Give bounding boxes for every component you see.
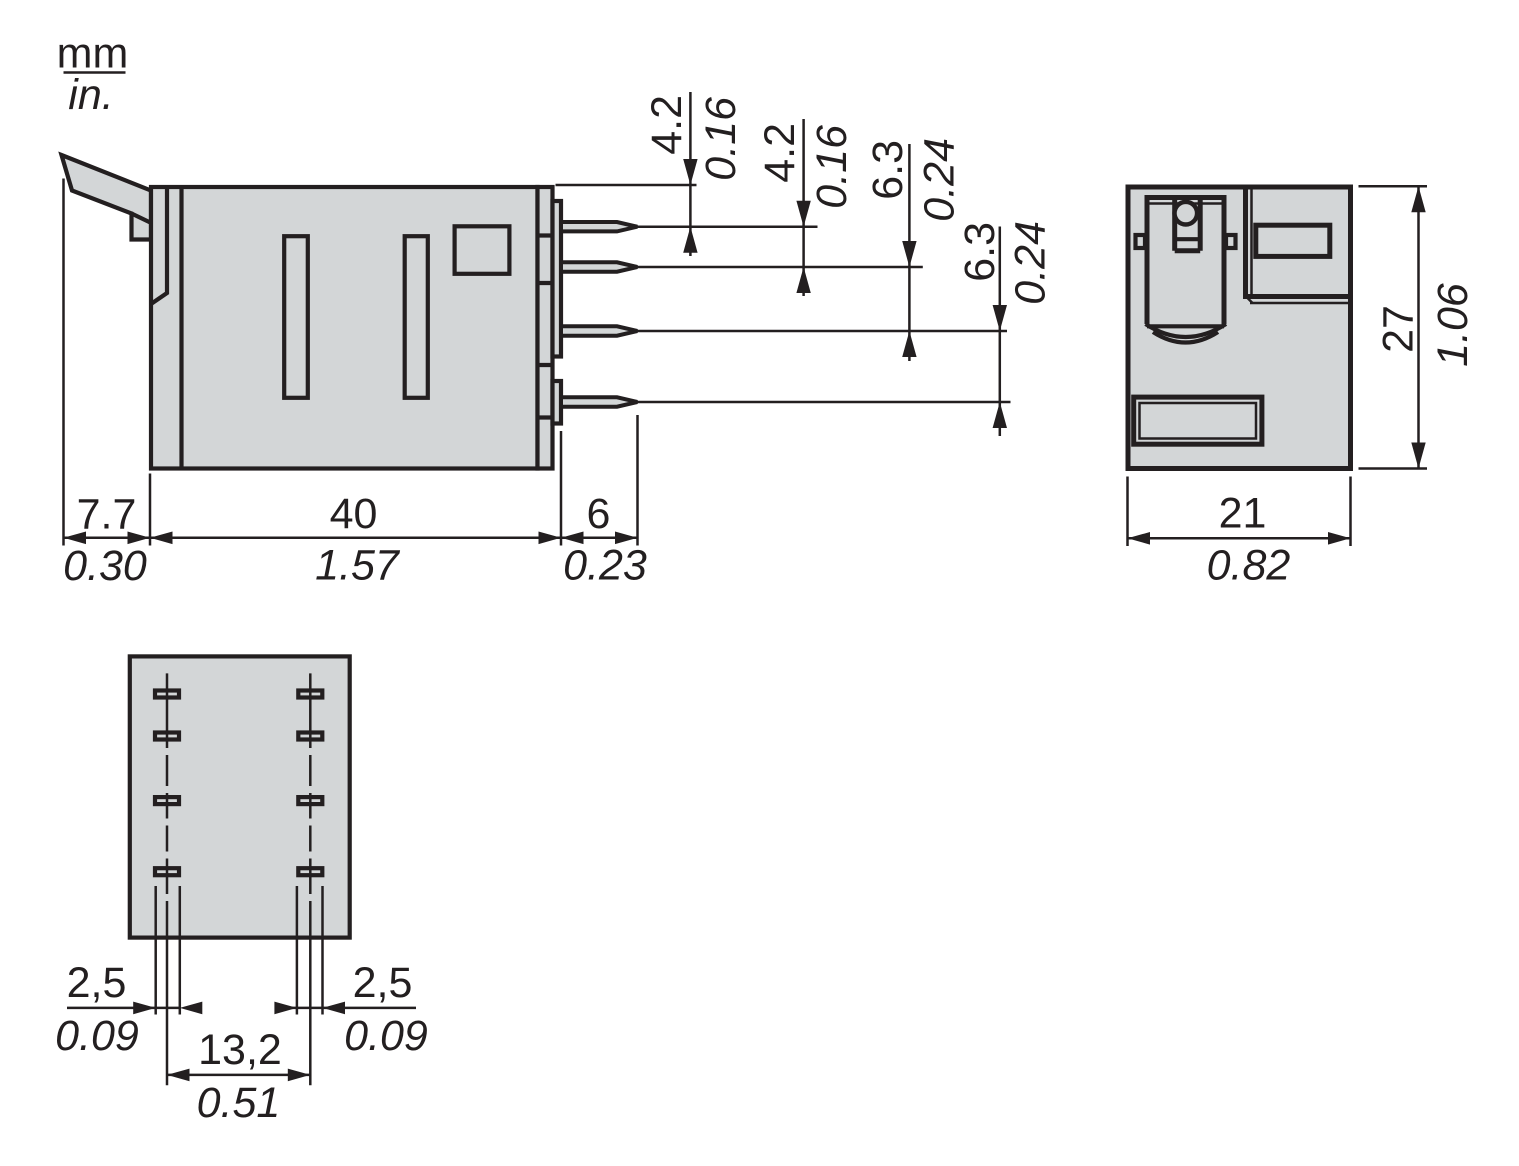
svg-text:1.57: 1.57 bbox=[315, 542, 401, 590]
svg-text:4.2: 4.2 bbox=[643, 95, 691, 155]
case left inner line bbox=[179, 187, 183, 469]
side view socket column bbox=[538, 187, 553, 469]
pin base block upper bbox=[553, 201, 562, 357]
svg-text:0.82: 0.82 bbox=[1207, 542, 1291, 590]
flag indicator housing bbox=[1145, 198, 1227, 343]
pin slot L2 bbox=[155, 733, 179, 740]
retaining clip lever bbox=[62, 155, 152, 240]
front view dimension 27/1.06 bbox=[1359, 186, 1478, 468]
bottom view: relay base bbox=[130, 656, 350, 1085]
case left flange line bbox=[152, 187, 167, 304]
svg-text:2,5: 2,5 bbox=[67, 959, 127, 1007]
pin slot R4 bbox=[298, 868, 322, 875]
svg-text:0.23: 0.23 bbox=[563, 542, 647, 590]
top-right block bottom edge bbox=[1243, 294, 1351, 299]
svg-text:21: 21 bbox=[1219, 490, 1267, 538]
svg-text:0.24: 0.24 bbox=[916, 138, 964, 222]
svg-text:0.16: 0.16 bbox=[697, 97, 745, 181]
dimension 6.3/0.24 second bbox=[956, 221, 1055, 436]
side view: relay body bbox=[62, 155, 638, 469]
svg-text:4.2: 4.2 bbox=[756, 123, 804, 183]
svg-text:7.7: 7.7 bbox=[77, 491, 137, 539]
pin slot R2 bbox=[298, 733, 322, 740]
top-right block miter bbox=[1245, 296, 1253, 304]
svg-text:6.3: 6.3 bbox=[956, 222, 1004, 282]
socket column notch 1 bbox=[536, 233, 553, 237]
front view dimension 21/0.82 bbox=[1128, 477, 1351, 590]
flag plunger bbox=[1175, 198, 1201, 251]
svg-text:0.09: 0.09 bbox=[55, 1012, 139, 1060]
front view: relay body bbox=[1128, 187, 1351, 469]
pin axis right (dashed) bbox=[309, 673, 312, 1085]
pin 3 bbox=[561, 326, 637, 335]
svg-text:0.16: 0.16 bbox=[808, 125, 856, 209]
extension line lever tip bbox=[62, 179, 65, 546]
dimension 4.2/0.16 first bbox=[643, 92, 745, 256]
case small square bbox=[455, 226, 510, 273]
svg-text:40: 40 bbox=[330, 490, 378, 538]
svg-text:0.24: 0.24 bbox=[1007, 221, 1055, 305]
pin slot R3 bbox=[298, 797, 322, 804]
pin axis left (dashed) bbox=[166, 673, 169, 1085]
case slot 2 bbox=[405, 236, 428, 398]
ref line case top bbox=[556, 184, 697, 187]
front view case bbox=[1128, 187, 1351, 469]
label window bbox=[1256, 225, 1330, 256]
pin 2 bbox=[561, 262, 637, 271]
socket column notch 4 bbox=[536, 415, 553, 419]
ref line pin 3 bbox=[638, 330, 1008, 333]
svg-text:0.30: 0.30 bbox=[63, 542, 147, 590]
bottom view dimension 2,5/0.09 right bbox=[274, 886, 428, 1060]
svg-text:2,5: 2,5 bbox=[353, 959, 413, 1007]
ref line pin 2 bbox=[638, 266, 923, 269]
top-right block left edge bbox=[1243, 187, 1248, 297]
side view main case bbox=[151, 187, 538, 469]
bottom view case bbox=[130, 656, 350, 937]
bottom view dimension 13,2/0.51 bbox=[167, 1026, 310, 1127]
dimension 4.2/0.16 second bbox=[756, 119, 856, 296]
flag indicator button circle bbox=[1175, 202, 1198, 225]
socket column notch 2 bbox=[536, 281, 553, 285]
bottom view dimension 2,5/0.09 left bbox=[55, 886, 202, 1060]
extension line pin tip bbox=[636, 415, 639, 546]
pin slot L3 bbox=[155, 797, 179, 804]
svg-text:6.3: 6.3 bbox=[864, 140, 912, 200]
case slot 1 bbox=[284, 236, 308, 398]
svg-text:in.: in. bbox=[68, 71, 113, 119]
flag indicator right ear bbox=[1226, 235, 1236, 248]
svg-text:6: 6 bbox=[587, 490, 611, 538]
pin slot L1 bbox=[155, 691, 179, 698]
dimension chain pins: reference lines bbox=[556, 185, 1011, 402]
svg-text:0.09: 0.09 bbox=[344, 1012, 428, 1060]
dimension 6.3/0.24 first bbox=[864, 138, 964, 361]
pin base block lower bbox=[553, 381, 562, 424]
flag indicator left ear bbox=[1136, 235, 1146, 248]
pin 4 bbox=[561, 397, 637, 406]
pin slot L4 bbox=[155, 868, 179, 875]
side view bottom dimensions bbox=[63, 179, 647, 591]
extension line case right bbox=[560, 431, 563, 546]
svg-text:0.51: 0.51 bbox=[197, 1079, 281, 1127]
pin slot R1 bbox=[298, 691, 322, 698]
socket column notch 3 bbox=[536, 363, 553, 367]
svg-text:13,2: 13,2 bbox=[198, 1026, 282, 1074]
svg-text:1.06: 1.06 bbox=[1429, 283, 1477, 367]
svg-text:27: 27 bbox=[1375, 305, 1423, 353]
legend mm/in bbox=[57, 30, 129, 120]
ref line pin 4 bbox=[638, 401, 1011, 404]
bottom-left cover plate bbox=[1134, 397, 1262, 444]
ref line pin 1 bbox=[638, 225, 818, 228]
extension line case left bbox=[149, 474, 152, 546]
pin 1 bbox=[561, 222, 637, 231]
dimension line 7.7/40/6 bbox=[64, 537, 638, 540]
